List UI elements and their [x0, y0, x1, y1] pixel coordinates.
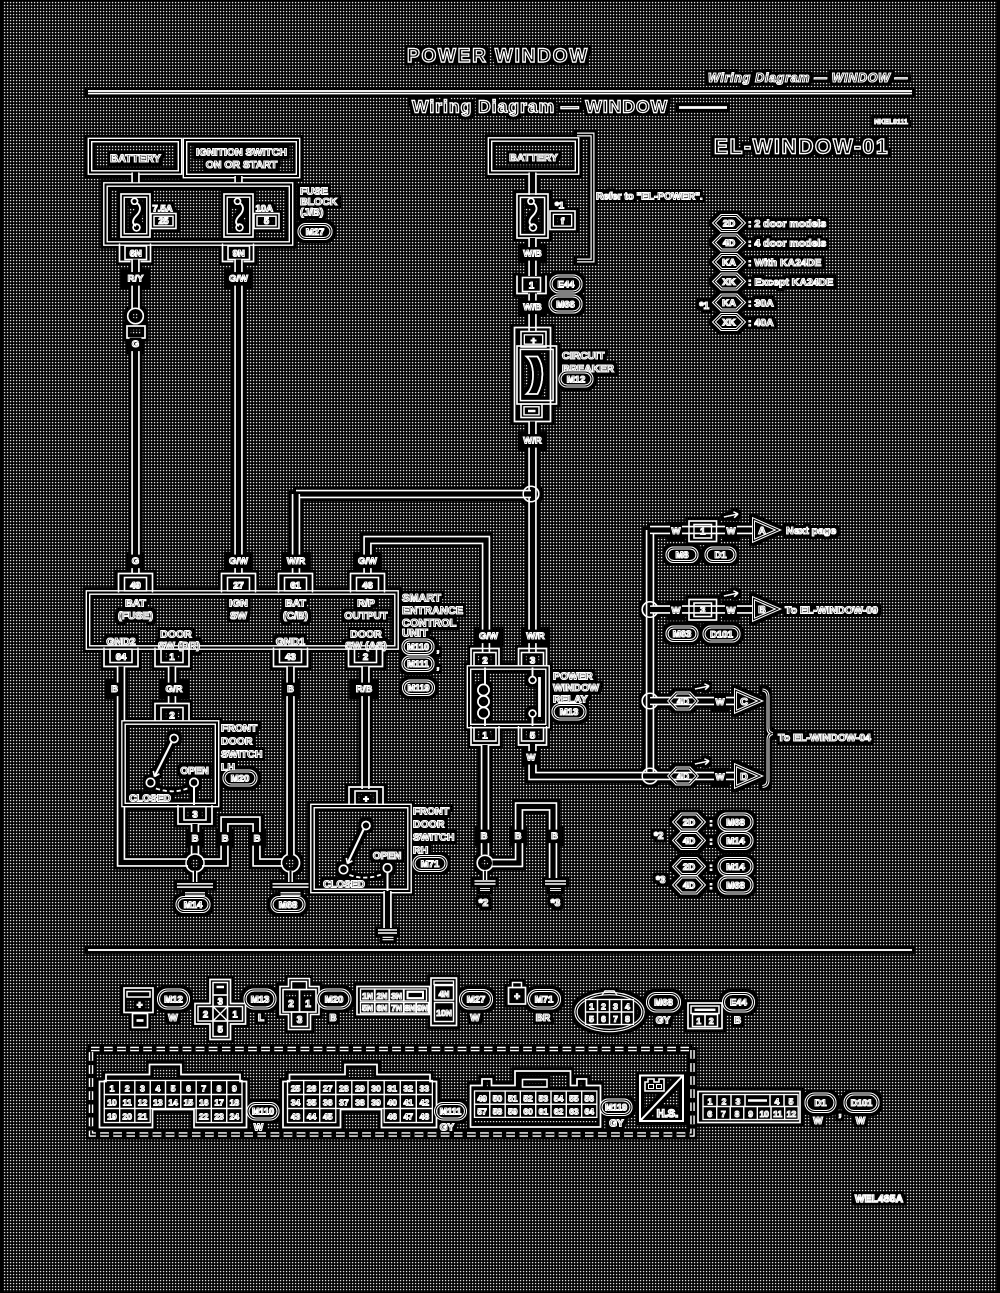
circuit breaker label — [562, 350, 614, 375]
connector oval M13 — [553, 705, 585, 720]
bracket refer to EL-POWER — [577, 135, 593, 261]
svg-text:B: B — [111, 684, 118, 695]
svg-text:W/B: W/B — [523, 302, 542, 313]
face label oval E44 — [724, 994, 754, 1012]
connector face M27 (fuse block) — [357, 987, 430, 1015]
connector oval M68 ground — [272, 898, 304, 912]
wire R/B terminal 2 to door switch RH — [361, 667, 369, 790]
svg-text:W: W — [527, 753, 536, 764]
wire W trunk vertical — [646, 530, 654, 776]
svg-text:54: 54 — [554, 1093, 564, 1103]
svg-text:9: 9 — [748, 1109, 753, 1119]
svg-text:9N: 9N — [417, 1003, 428, 1013]
svg-text:10: 10 — [107, 1098, 117, 1108]
svg-text:B: B — [222, 834, 229, 845]
svg-text:3: 3 — [192, 810, 197, 821]
svg-text:35: 35 — [307, 1098, 317, 1108]
door switch LH arm — [153, 743, 171, 777]
svg-text:36: 36 — [323, 1098, 333, 1108]
label W (row C) — [714, 696, 726, 710]
svg-text:ON OR START: ON OR START — [206, 159, 278, 171]
svg-text:24: 24 — [230, 1112, 240, 1122]
svg-text:8: 8 — [625, 1014, 630, 1024]
svg-text:M119: M119 — [407, 683, 429, 693]
connector oval M8 — [667, 548, 697, 562]
label G/W (at relay) — [477, 630, 501, 644]
svg-text:BAT: BAT — [125, 598, 146, 610]
face label oval D1 — [806, 1094, 835, 1112]
svg-text:B: B — [192, 834, 199, 845]
svg-text:SW (DR): SW (DR) — [158, 640, 200, 652]
svg-text:46: 46 — [387, 1112, 397, 1122]
svg-text:M12: M12 — [567, 374, 585, 385]
face label oval M12 — [159, 990, 189, 1008]
svg-text:19: 19 — [107, 1112, 117, 1122]
svg-text::: : — [709, 837, 712, 848]
label BAT (FUSE) — [118, 598, 153, 623]
svg-text:21: 21 — [138, 1112, 148, 1122]
connector oval M119 — [404, 681, 434, 695]
svg-text:2D: 2D — [683, 862, 695, 873]
svg-text:4: 4 — [775, 1096, 780, 1106]
svg-text:3: 3 — [297, 1015, 303, 1026]
svg-text:W: W — [856, 1116, 866, 1127]
svg-text:M27: M27 — [306, 227, 324, 238]
ground symbol M14 — [193, 871, 198, 882]
label B (jog to *3 right) — [549, 830, 561, 844]
terminal 46 — [351, 574, 385, 593]
page arrow A — [754, 519, 779, 540]
svg-text:62: 62 — [554, 1107, 564, 1117]
svg-text:D1: D1 — [814, 1098, 827, 1109]
harness arrow row B — [724, 591, 738, 597]
svg-text:52: 52 — [523, 1093, 533, 1103]
wire B jog to ground *3 — [493, 807, 554, 879]
svg-text:OUTPUT: OUTPUT — [344, 610, 388, 622]
svg-text:4D: 4D — [677, 771, 689, 782]
dashed box around control unit connectors — [91, 1049, 693, 1135]
svg-text:: 30A: : 30A — [748, 298, 774, 310]
svg-text:CIRCUIT: CIRCUIT — [562, 350, 605, 362]
svg-text:6N: 6N — [130, 249, 142, 260]
svg-text:M71: M71 — [535, 995, 554, 1006]
joint box under splice — [127, 326, 145, 338]
svg-text:M14: M14 — [726, 836, 745, 847]
svg-text:M13: M13 — [560, 707, 578, 718]
svg-text:3: 3 — [218, 997, 223, 1007]
label G (bottom) — [130, 555, 142, 569]
page arrow D — [736, 765, 761, 786]
svg-text:1: 1 — [232, 1010, 237, 1020]
face label oval M13 — [245, 990, 275, 1008]
svg-text:60: 60 — [523, 1107, 533, 1117]
label G/W (bottom) — [227, 555, 251, 569]
label W/B (lower) — [521, 301, 545, 315]
terminal 1 — [155, 648, 189, 667]
svg-text:G/W: G/W — [229, 556, 248, 567]
svg-text:50: 50 — [493, 1093, 503, 1103]
svg-text:8: 8 — [735, 1109, 740, 1119]
svg-text::: : — [709, 863, 712, 874]
svg-text:OPEN: OPEN — [180, 766, 208, 777]
junction W/R — [523, 486, 539, 502]
svg-text:2: 2 — [482, 656, 487, 667]
svg-text:M68: M68 — [654, 998, 672, 1009]
svg-text:SW (AS): SW (AS) — [345, 640, 386, 652]
ignition switch box — [185, 140, 298, 176]
svg-text:*2: *2 — [479, 898, 489, 909]
door switch RH contact closed — [339, 865, 347, 873]
svg-text:46: 46 — [362, 581, 373, 592]
label B (GND2 wire) — [109, 683, 121, 697]
svg-text:W/R: W/R — [526, 631, 545, 642]
H.S. inspection emblem — [640, 1076, 683, 1122]
label W (row A right) — [725, 525, 737, 539]
svg-text:2: 2 — [363, 652, 368, 663]
svg-text:M14: M14 — [184, 900, 203, 911]
svg-text:30: 30 — [371, 1084, 381, 1094]
svg-text:4D: 4D — [677, 696, 689, 707]
svg-text:1: 1 — [700, 527, 706, 538]
svg-text:W: W — [254, 1123, 264, 1134]
svg-text:CLOSED: CLOSED — [129, 794, 171, 805]
svg-text:CLOSED: CLOSED — [323, 880, 365, 891]
harness arrow row A — [724, 512, 738, 518]
face label oval M68 — [648, 994, 680, 1012]
door switch LH terminal 3 — [178, 805, 212, 824]
svg-text:XK: XK — [722, 317, 735, 328]
control unit connector face M110 — [100, 1065, 247, 1128]
wire battery to fusible link — [528, 173, 536, 196]
svg-text:B: B — [551, 831, 558, 842]
svg-text:1: 1 — [589, 1002, 594, 1012]
label B (jog right) — [251, 832, 263, 846]
svg-text:59: 59 — [508, 1107, 518, 1117]
double rule under title — [88, 91, 912, 94]
svg-text:*3: *3 — [551, 898, 561, 909]
junction row C — [642, 693, 658, 709]
svg-text:M119: M119 — [605, 1102, 627, 1112]
brace to EL-WINDOW-04 — [763, 690, 773, 787]
svg-text:5: 5 — [589, 1014, 594, 1024]
connector oval M111 — [403, 657, 433, 671]
label POWER WINDOW RELAY — [553, 671, 599, 706]
svg-text:7N: 7N — [391, 1003, 402, 1013]
svg-text:3N: 3N — [391, 991, 402, 1001]
connector face M68 (oval 8-pin) — [576, 991, 643, 1031]
svg-text:6: 6 — [707, 1109, 712, 1119]
svg-text:SMART: SMART — [402, 593, 441, 605]
svg-text:RH: RH — [413, 845, 428, 857]
fuse number box 5 — [254, 214, 279, 229]
legend *2 2D oval M68 — [719, 814, 752, 830]
connector face E44 — [688, 1003, 722, 1029]
svg-text:W: W — [672, 606, 681, 617]
wire W relay terminal 5 to trunk — [533, 744, 651, 776]
junction row D — [642, 768, 658, 784]
connector oval M20 — [224, 771, 256, 785]
svg-text:POWER WINDOW: POWER WINDOW — [407, 46, 589, 67]
relay terminal 3 — [519, 649, 547, 668]
svg-text:6N: 6N — [377, 1003, 388, 1013]
svg-text:E44: E44 — [558, 279, 576, 290]
svg-text:C: C — [740, 696, 748, 708]
svg-text:DOOR: DOOR — [350, 629, 382, 641]
svg-text:,: , — [437, 644, 440, 654]
svg-text:M63: M63 — [673, 629, 691, 640]
svg-text:20: 20 — [123, 1112, 133, 1122]
terminal 61 — [279, 574, 313, 593]
harness arrow row C — [695, 684, 709, 690]
wire door switch RH to body ground — [383, 891, 391, 928]
svg-text:GY: GY — [656, 1016, 671, 1027]
door switch LH terminal 2 — [155, 704, 189, 723]
svg-text:B: B — [481, 831, 488, 842]
door switch RH dashed travel arc — [350, 874, 384, 878]
ground splice M14 — [186, 854, 204, 872]
label W (row A left) — [670, 525, 682, 539]
svg-text:(FUSE): (FUSE) — [118, 610, 153, 622]
door switch LH contact to terminal 3 — [193, 787, 195, 805]
svg-text:+: + — [531, 336, 537, 347]
label W/R (at relay) — [524, 630, 548, 644]
face label oval M71 — [529, 991, 560, 1009]
svg-text:39: 39 — [371, 1098, 381, 1108]
svg-text:1: 1 — [708, 1096, 713, 1106]
battery (main) box — [490, 140, 577, 173]
svg-text:GY: GY — [609, 1119, 624, 1130]
svg-text:KA: KA — [722, 257, 736, 268]
svg-text:To EL-WINDOW-09: To EL-WINDOW-09 — [785, 605, 878, 617]
svg-text:BATTERY: BATTERY — [110, 153, 161, 165]
svg-text:4D: 4D — [683, 880, 695, 891]
svg-text:5: 5 — [218, 1025, 223, 1035]
face label oval M119 — [601, 1100, 631, 1115]
svg-text:B: B — [254, 834, 261, 845]
door switch RH pivot — [362, 822, 370, 830]
label W/R (at unit) — [284, 555, 308, 569]
svg-text:M68: M68 — [726, 880, 744, 891]
svg-text:SW: SW — [230, 610, 247, 622]
svg-text:3: 3 — [736, 1096, 741, 1106]
control unit connector face M119 — [471, 1071, 601, 1127]
svg-text:57: 57 — [477, 1107, 487, 1117]
svg-text:E44: E44 — [730, 998, 748, 1009]
junction row B — [642, 602, 658, 618]
svg-text:27: 27 — [233, 581, 244, 592]
pass-through connector M8/D1 — [689, 521, 717, 542]
svg-text:5: 5 — [264, 216, 269, 226]
pass-through connector E44/M66 — [517, 276, 546, 294]
svg-text:1: 1 — [482, 731, 488, 742]
svg-text:64: 64 — [116, 652, 127, 663]
wire G/W RAP output to relay terminal 2 — [368, 540, 487, 653]
svg-text:EL-WINDOW-01: EL-WINDOW-01 — [714, 136, 889, 159]
svg-text:1: 1 — [169, 652, 175, 663]
terminal 43 — [274, 648, 308, 667]
svg-text:WINDOW: WINDOW — [553, 682, 599, 694]
svg-text:3: 3 — [530, 656, 535, 667]
svg-text:49: 49 — [477, 1093, 487, 1103]
svg-text:WEL485A: WEL485A — [855, 1194, 903, 1205]
svg-text:1N: 1N — [362, 991, 373, 1001]
svg-text:W: W — [727, 526, 736, 537]
svg-text:2D: 2D — [683, 817, 695, 828]
svg-text:2: 2 — [288, 999, 294, 1010]
svg-text:+: + — [137, 1001, 143, 1012]
legend *3 4D — [674, 877, 704, 893]
fuse block label — [300, 186, 338, 219]
svg-text:16: 16 — [199, 1098, 209, 1108]
svg-text:61: 61 — [290, 581, 301, 592]
connector oval D1 — [706, 548, 735, 562]
wire G/R terminal 1 to door switch LH — [168, 667, 176, 705]
svg-text:W: W — [716, 772, 725, 783]
svg-text:2: 2 — [203, 1010, 208, 1020]
svg-text:4: 4 — [155, 1084, 160, 1094]
wire G to control unit terminal 49 — [131, 338, 139, 573]
svg-text:1: 1 — [305, 999, 311, 1010]
svg-text:D: D — [740, 771, 748, 783]
relay terminal 5 — [519, 726, 547, 745]
svg-text:Wiring Diagram — WINDOW —: Wiring Diagram — WINDOW — — [708, 71, 908, 85]
svg-text:5: 5 — [530, 731, 536, 742]
smart entrance control unit box — [88, 593, 397, 648]
svg-text:SWITCH: SWITCH — [221, 749, 262, 761]
legend XK 40A — [714, 315, 744, 330]
svg-text:A: A — [758, 525, 766, 537]
legend *2 2D — [674, 814, 704, 830]
svg-text:5N: 5N — [362, 1003, 373, 1013]
svg-text:29: 29 — [355, 1084, 365, 1094]
legend KA 30A — [714, 295, 744, 310]
svg-text:NKEL0111: NKEL0111 — [874, 119, 908, 126]
svg-text:13: 13 — [153, 1098, 163, 1108]
svg-text:43: 43 — [291, 1112, 301, 1122]
svg-text:G: G — [132, 339, 139, 350]
svg-text:*1: *1 — [700, 301, 710, 312]
label B (GND1 wire) — [285, 683, 297, 697]
relay terminal 2 — [471, 649, 499, 668]
wire B ground link jog — [202, 821, 283, 863]
svg-text:Next page: Next page — [786, 525, 836, 537]
svg-text:3: 3 — [613, 1002, 618, 1012]
wire W row B — [650, 605, 754, 613]
svg-text:M111: M111 — [440, 1106, 462, 1116]
power window relay box — [469, 668, 548, 727]
svg-text:Refer to "EL-POWER".: Refer to "EL-POWER". — [596, 192, 703, 203]
svg-text:FRONT: FRONT — [413, 806, 450, 818]
svg-text:56: 56 — [585, 1093, 595, 1103]
svg-text:R/B: R/B — [356, 684, 373, 695]
fuse 7.5A [25] symbol — [121, 194, 150, 237]
svg-text:64: 64 — [585, 1107, 595, 1117]
fuse number box 25 — [151, 214, 176, 229]
svg-text:G/R: G/R — [166, 684, 183, 695]
svg-text:L: L — [258, 1013, 264, 1024]
svg-text:M27: M27 — [467, 995, 485, 1006]
svg-text:To EL-WINDOW-04: To EL-WINDOW-04 — [778, 732, 871, 744]
svg-text:44: 44 — [307, 1112, 317, 1122]
face label oval M27 — [461, 991, 492, 1009]
svg-text:B: B — [758, 604, 766, 616]
svg-text:W: W — [168, 1013, 178, 1024]
svg-text:11: 11 — [773, 1109, 782, 1119]
svg-text:DOOR: DOOR — [160, 629, 192, 641]
svg-text:ENTRANCE: ENTRANCE — [402, 605, 463, 617]
wire W row A — [650, 526, 754, 534]
svg-text:5: 5 — [171, 1084, 176, 1094]
svg-text:B: B — [515, 831, 522, 842]
svg-text:: 4 door models: : 4 door models — [748, 238, 826, 250]
legend *3 2D — [674, 859, 704, 875]
svg-text:W: W — [470, 1013, 480, 1024]
svg-text:33: 33 — [420, 1084, 430, 1094]
wire W/B to connector E44 — [528, 238, 536, 276]
label W (row B left) — [670, 604, 682, 618]
label W (row D) — [714, 771, 726, 785]
body ground under switch RH — [378, 929, 397, 933]
svg-text:7: 7 — [721, 1109, 726, 1119]
svg-text:DOOR: DOOR — [221, 736, 253, 748]
front door switch LH box — [124, 723, 218, 806]
svg-text:37: 37 — [339, 1098, 349, 1108]
door switch RH contact open — [383, 864, 391, 872]
svg-text:BAT: BAT — [285, 598, 306, 610]
svg-text:GY: GY — [440, 1123, 455, 1134]
svg-text:2: 2 — [709, 1016, 714, 1026]
svg-text:6: 6 — [186, 1084, 191, 1094]
svg-text:W: W — [672, 526, 681, 537]
legend *2 4D oval M14 — [719, 833, 752, 849]
svg-text:17: 17 — [214, 1098, 224, 1108]
circuit breaker housing — [515, 328, 551, 422]
ground symbol *3 — [545, 880, 566, 884]
svg-text:2D: 2D — [723, 218, 735, 229]
svg-text:M66: M66 — [556, 299, 574, 310]
svg-text:(J/B): (J/B) — [300, 207, 323, 219]
svg-text:B: B — [329, 1013, 336, 1024]
svg-text:BATTERY: BATTERY — [509, 152, 557, 164]
connector oval M63 — [667, 627, 697, 641]
page arrow C — [736, 690, 761, 711]
svg-text:2: 2 — [601, 1002, 606, 1012]
svg-text:M110: M110 — [252, 1106, 274, 1116]
svg-text:1: 1 — [696, 1016, 701, 1026]
label G/W (at unit, RAP) — [356, 555, 380, 569]
wire W row D — [650, 772, 735, 780]
svg-text:M68: M68 — [279, 900, 297, 911]
svg-text:48: 48 — [420, 1112, 430, 1122]
legend XK — [714, 274, 744, 289]
splice on R/Y wire — [128, 308, 144, 324]
svg-text:: 40A: : 40A — [748, 317, 774, 329]
svg-text:M8: M8 — [675, 550, 688, 561]
svg-text:M20: M20 — [231, 773, 249, 784]
svg-text:6: 6 — [601, 1014, 606, 1024]
connector face M13 (relay, cross shape) — [195, 980, 246, 1040]
wire G/W from 9N to terminal 27 — [234, 260, 242, 574]
svg-text:8N: 8N — [405, 1003, 416, 1013]
svg-text:+: + — [514, 992, 520, 1003]
svg-text:M111: M111 — [407, 659, 429, 669]
svg-text:W/R: W/R — [287, 556, 306, 567]
door switch LH contact closed — [146, 778, 154, 786]
svg-text:7: 7 — [201, 1084, 206, 1094]
wire B from terminal 64 to ground splice — [121, 667, 188, 863]
svg-text:M12: M12 — [164, 994, 182, 1005]
wire W/R down to terminal 61 — [292, 494, 300, 573]
